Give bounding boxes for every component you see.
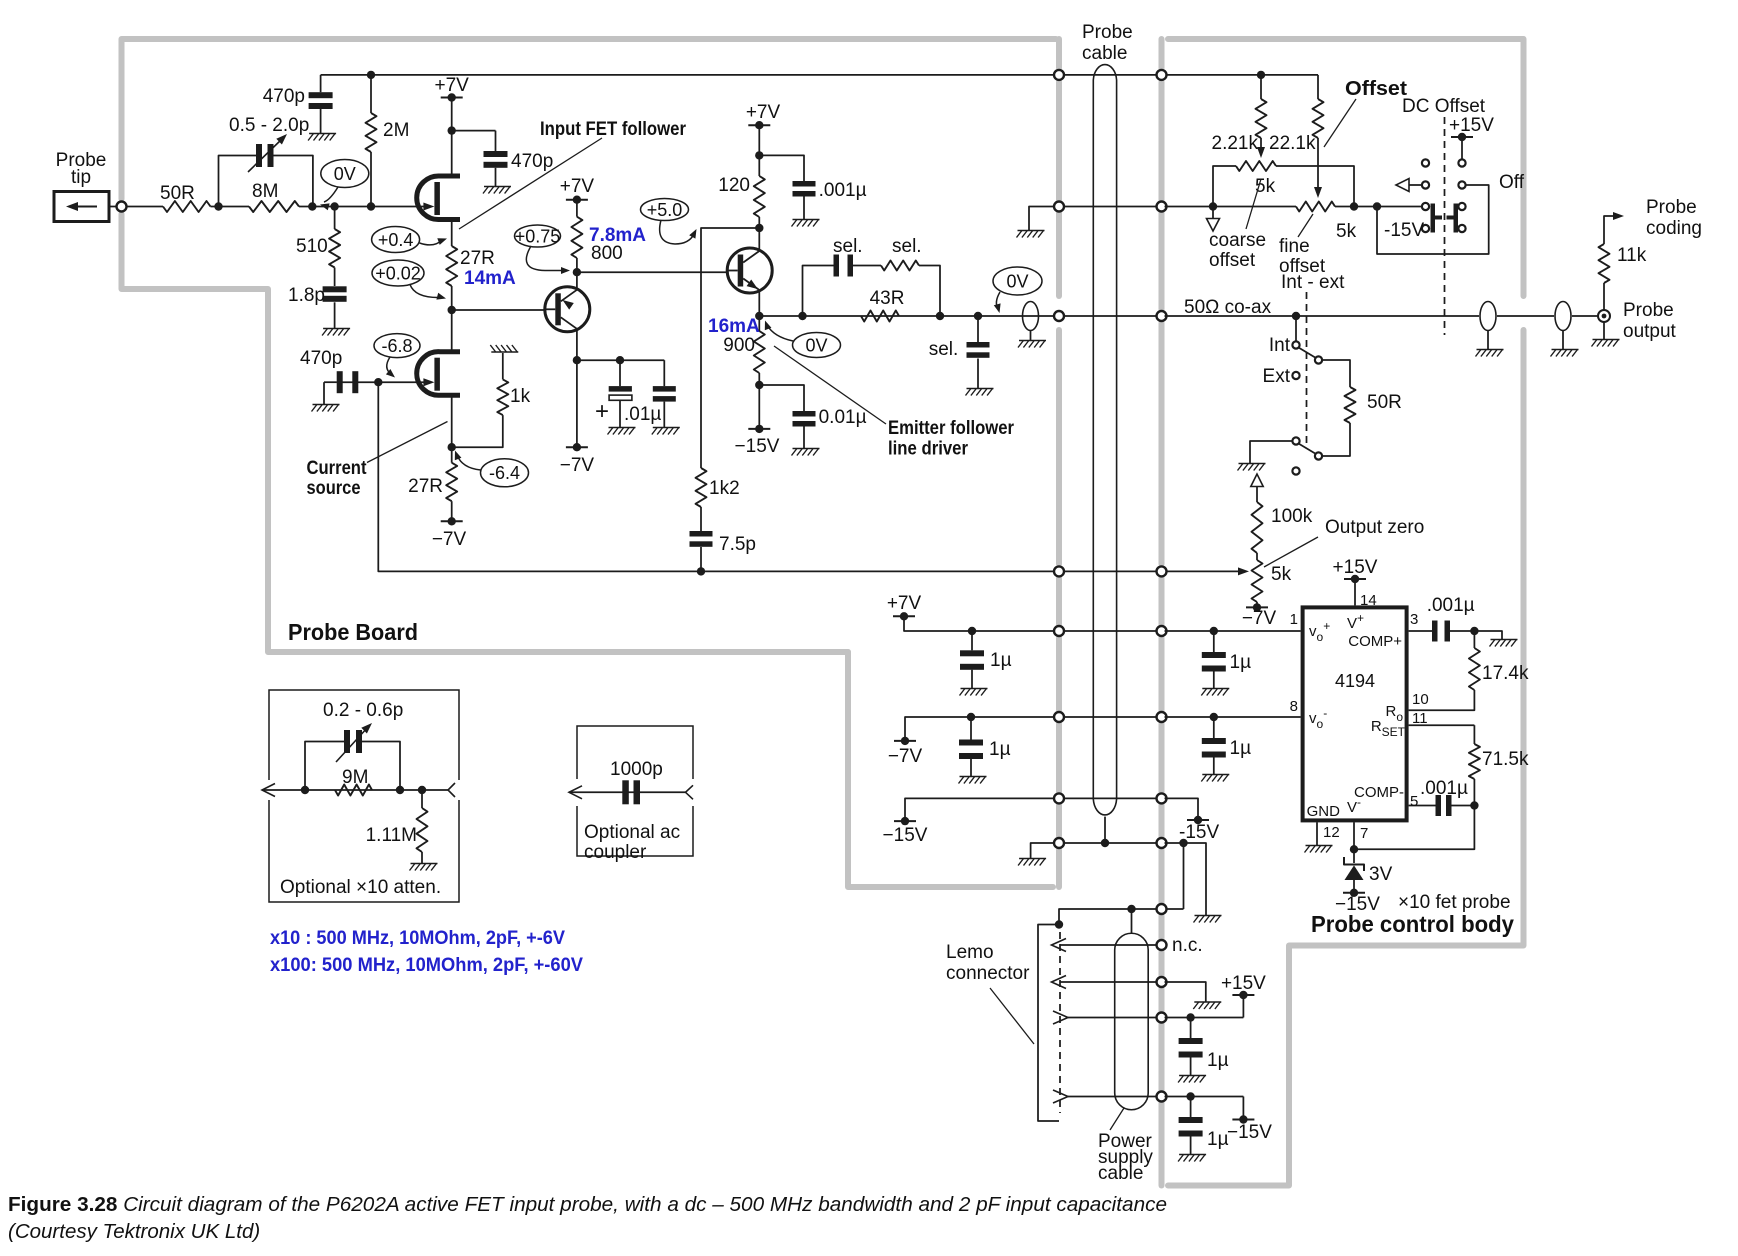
wire coupler	[569, 791, 686, 793]
wire 900 to -15V	[758, 373, 760, 429]
node 9M left	[301, 786, 309, 794]
wire trimmer branch attenuator	[305, 742, 344, 791]
ground below 1.8p	[323, 328, 350, 330]
svg-text:cable: cable	[1098, 1163, 1143, 1184]
svg-text:100k: 100k	[1271, 506, 1313, 527]
wire emitter line to border	[759, 315, 1056, 317]
supply -15V zener	[1343, 892, 1365, 894]
svg-text:Offset: Offset	[1345, 78, 1407, 100]
capacitor .001u	[793, 181, 816, 187]
svg-text:1µ: 1µ	[1230, 738, 1252, 759]
lemo pin +15V row	[1053, 1011, 1068, 1024]
svg-text:14: 14	[1360, 592, 1377, 609]
node power cable shield stem	[1127, 905, 1135, 913]
svg-text:8: 8	[1290, 698, 1298, 715]
capacitor 7.5p	[690, 531, 713, 537]
potentiometer coarse offset 5k	[1236, 161, 1276, 171]
wire +15V row to supply	[1165, 1017, 1244, 1019]
voltage ellipse +5.0	[641, 199, 689, 221]
node Q3 collector	[755, 224, 763, 232]
svg-text:.01µ: .01µ	[624, 404, 661, 425]
node electrolytic branch	[616, 356, 624, 364]
node off loop join	[1373, 202, 1381, 210]
wire probe tip to 50R	[109, 206, 163, 208]
power supply cable outline	[1115, 933, 1149, 1110]
svg-text:Probe: Probe	[1082, 22, 1133, 43]
wire attenuator main	[262, 789, 448, 791]
svg-text:.001µ: .001µ	[1427, 595, 1475, 616]
supply +7V row to control body	[893, 615, 915, 617]
svg-text:14mA: 14mA	[464, 268, 516, 289]
pushbutton bars	[1431, 204, 1436, 233]
svg-text:3V: 3V	[1369, 864, 1393, 885]
capacitor 0.01u	[793, 411, 816, 417]
callout line output zero	[1264, 537, 1318, 567]
ground below sel shunt	[967, 388, 994, 390]
open circle -15V control border	[1157, 793, 1167, 803]
node after 8M	[308, 202, 316, 210]
supply -15V row to control body	[905, 798, 1056, 821]
svg-text:n.c.: n.c.	[1172, 935, 1203, 956]
transistor Q1 input FET follower (JFET)	[417, 176, 460, 220]
probe cable shield stem to ground row	[1104, 817, 1106, 843]
node comp- cap	[1470, 801, 1478, 809]
callout line input FET follower	[459, 138, 602, 229]
wire Q2 collector to -7V	[576, 360, 578, 447]
node probe cable shield on ground row	[1101, 839, 1109, 847]
node 2M branch	[367, 202, 375, 210]
svg-text:0.2 - 0.6p: 0.2 - 0.6p	[323, 700, 403, 721]
optional x10 attenuator box	[269, 690, 459, 902]
svg-text:GND: GND	[1307, 803, 1341, 820]
node open circle rail at control body border	[1157, 70, 1167, 80]
node 1.11M	[418, 786, 426, 794]
svg-text:offset: offset	[1209, 250, 1256, 271]
svg-text:output: output	[1623, 321, 1677, 342]
resistor 11k probe coding	[1603, 283, 1605, 310]
svg-text:8M: 8M	[252, 181, 278, 202]
svg-text:1.8p: 1.8p	[288, 285, 325, 306]
resistor 800	[576, 200, 578, 217]
ground int-ext	[1239, 463, 1266, 465]
svg-text:Output zero: Output zero	[1325, 517, 1424, 538]
capacitor 0.2-0.6p variable	[344, 730, 350, 753]
svg-text:50R: 50R	[160, 183, 195, 204]
potentiometer fine offset 5k	[1296, 202, 1335, 212]
ground below 1u pin8	[1202, 774, 1229, 776]
wire 27R to node	[451, 286, 453, 310]
co-ax shield oval outer	[1555, 302, 1571, 331]
svg-text:50R: 50R	[1367, 392, 1402, 413]
svg-text:0V: 0V	[805, 335, 827, 355]
svg-text:1k2: 1k2	[709, 478, 740, 499]
svg-text:50Ω co-ax: 50Ω co-ax	[1184, 297, 1272, 318]
node 1u cap row7	[968, 627, 976, 635]
open circle +7V control border	[1157, 626, 1167, 636]
svg-text:1µ: 1µ	[1207, 1050, 1229, 1071]
open circle guard control border	[1157, 566, 1167, 576]
capacitor 1000p	[622, 780, 629, 804]
arrow up to output zero network	[1251, 474, 1263, 487]
svg-text:27R: 27R	[408, 476, 443, 497]
node ground row branch	[1179, 839, 1187, 847]
svg-text:12: 12	[1323, 824, 1340, 841]
wire to 50R	[1322, 360, 1350, 387]
resistor 71.5k	[1473, 725, 1475, 744]
svg-text:COMP+: COMP+	[1348, 633, 1402, 650]
node 9M right	[396, 786, 404, 794]
node FET drain 470p branch	[448, 126, 456, 134]
svg-text:DC Offset: DC Offset	[1402, 96, 1486, 117]
ground co-ax probe board side	[1019, 340, 1046, 342]
wire trimmer branch	[219, 156, 257, 207]
lemo connector dashed pin column	[1059, 932, 1061, 1113]
svg-text:Current: Current	[307, 458, 368, 479]
svg-text:-15V: -15V	[1384, 220, 1424, 241]
ground below 1u -15V	[1179, 1154, 1206, 1156]
capacitor 470p series at gate	[337, 371, 343, 393]
svg-text:Figure 3.28 Circuit diagram o: Figure 3.28 Circuit diagram of the P6202…	[8, 1193, 1167, 1216]
power supply cable shield stem	[1131, 909, 1133, 933]
resistor 2.21k	[1260, 75, 1262, 99]
svg-text:800: 800	[591, 243, 623, 264]
ground below .01u ceramic	[653, 427, 680, 429]
resistor 8M	[249, 201, 299, 212]
wire -15V row to supply	[1165, 1096, 1244, 1098]
ground below 1.11M	[421, 852, 423, 863]
svg-text:coupler: coupler	[584, 842, 647, 863]
capacitor sel. shunt	[977, 316, 979, 342]
svg-text:0V: 0V	[1006, 271, 1028, 291]
svg-text:Int - ext: Int - ext	[1281, 272, 1345, 293]
wire caps branch	[577, 359, 664, 361]
ground below 1u +15V	[1179, 1075, 1206, 1077]
svg-text:0.5 - 2.0p: 0.5 - 2.0p	[229, 115, 309, 136]
svg-text:0V: 0V	[334, 164, 356, 184]
svg-text:120: 120	[718, 175, 750, 196]
open circle y207 control border	[1157, 202, 1167, 212]
terminal arrow left attenuator	[262, 784, 275, 797]
svg-text:1µ: 1µ	[990, 650, 1012, 671]
switch contact Int	[1292, 341, 1299, 348]
svg-text:+0.02: +0.02	[375, 263, 421, 283]
node pin7	[1350, 845, 1358, 853]
resistor 900	[754, 331, 765, 373]
node Q2 emitter/800	[573, 268, 581, 276]
capacitor 470p top-left	[320, 75, 322, 92]
probe output connector	[1598, 310, 1610, 322]
pin 3 comp+ right	[1409, 630, 1432, 632]
capacitor .01u electrolytic	[619, 360, 621, 386]
svg-text:+7V: +7V	[560, 176, 595, 197]
co-ax shield oval probe board side	[1023, 302, 1039, 331]
svg-text:7.5p: 7.5p	[719, 534, 756, 555]
voltage ellipse -6.4	[481, 459, 529, 487]
open circle ground row control border	[1157, 838, 1167, 848]
wire comp- to pin7 node	[1354, 806, 1474, 850]
voltage ellipse 0V emitter	[793, 333, 841, 358]
wire lower contact to ground	[1250, 441, 1292, 463]
svg-text:11: 11	[1412, 710, 1428, 727]
open circle emitter line control border	[1157, 311, 1167, 321]
supply -15V below 900	[748, 428, 770, 430]
resistor 17.4k	[1473, 631, 1475, 648]
svg-text:43R: 43R	[870, 288, 905, 309]
wire 17.4k to pin10	[1409, 690, 1475, 710]
svg-text:-6.4: -6.4	[489, 463, 520, 483]
wire node down to FET2 drain	[451, 310, 453, 352]
svg-text:10: 10	[1412, 691, 1429, 708]
resistor 43R	[861, 311, 899, 322]
co-ax shield oval inner	[1480, 302, 1496, 331]
supply -7V below current source	[441, 520, 463, 522]
svg-text:.001µ: .001µ	[819, 180, 867, 201]
svg-text:1k: 1k	[510, 386, 531, 407]
open circle -7V probe border	[1054, 712, 1064, 722]
wire +7V to 120	[758, 125, 760, 176]
svg-text:+0.4: +0.4	[378, 230, 414, 250]
capacitor .001u comp+	[1432, 621, 1438, 642]
wire ground row into control body	[1165, 843, 1207, 915]
svg-text:Emitter follower: Emitter follower	[888, 418, 1015, 439]
callout line fine offset	[1298, 214, 1313, 237]
svg-text:×10 fet probe: ×10 fet probe	[1398, 892, 1511, 913]
node bracket top	[1055, 920, 1063, 928]
resistor 50R int-ext	[1345, 387, 1356, 423]
wire feedback to left and down to 1k2	[701, 228, 759, 468]
probe cable outline	[1093, 65, 1116, 799]
svg-text:x10 : 500 MHz, 10MOhm, 2pF, +: x10 : 500 MHz, 10MOhm, 2pF, +-6V	[270, 927, 565, 949]
svg-text:+5.0: +5.0	[647, 200, 683, 220]
wire Q3 emitter down	[758, 290, 760, 331]
dashed line DC offset switch	[1444, 117, 1446, 335]
capacitor .001u comp-	[1436, 795, 1442, 816]
wire Q2 collector down	[576, 329, 578, 360]
svg-text:+15V: +15V	[1333, 557, 1378, 578]
wire off loop	[1377, 185, 1489, 254]
svg-text:Probe Board: Probe Board	[288, 619, 418, 645]
voltage ellipse -6.8	[374, 334, 420, 358]
lemo connector bracket	[1038, 925, 1059, 1122]
Probe Board gray border outline	[122, 39, 1060, 887]
resistor 1k	[497, 379, 508, 415]
wire node to Q3 base	[577, 271, 727, 273]
triangle arrow to offset pots	[1396, 179, 1409, 192]
pin 11 rset	[1409, 724, 1475, 726]
node 510 branch	[330, 202, 338, 210]
callout line power supply cable	[1110, 1108, 1124, 1130]
open circle -7V control border	[1157, 712, 1167, 722]
diode zener 3V	[1353, 849, 1355, 863]
supply -7V output zero	[1246, 606, 1268, 608]
voltage ellipse +0.4	[372, 227, 420, 253]
node coarse left on main line	[1209, 202, 1217, 210]
node FET1 bias	[448, 306, 456, 314]
wire to 470p decoupling cap	[452, 130, 496, 132]
switch contacts DC offset	[1422, 159, 1429, 166]
wire fine offset to switch	[1335, 206, 1422, 208]
svg-text:-6.8: -6.8	[381, 336, 412, 356]
capacitor 1u pin8	[1213, 717, 1215, 738]
open circle emitter line probe border	[1054, 311, 1064, 321]
ground below 470p top-left	[309, 133, 336, 135]
svg-text:2M: 2M	[383, 120, 409, 141]
svg-text:−15V: −15V	[735, 436, 780, 457]
voltage ellipse 0V input	[321, 160, 369, 188]
svg-text:510: 510	[296, 236, 328, 257]
resistor 27R current source	[446, 463, 457, 502]
wire 50R to 8M	[211, 206, 250, 208]
node FET2 gate	[374, 378, 382, 386]
node .001u branch	[755, 151, 763, 159]
dashed line int-ext	[1306, 292, 1308, 446]
node 1u cap row -7V	[967, 713, 975, 721]
transistor Q3 emitter follower line driver	[727, 248, 772, 293]
wire 1k branch	[452, 415, 503, 447]
svg-text:Lemo: Lemo	[946, 942, 994, 963]
wire 5k pot to -7V	[1256, 602, 1258, 607]
svg-text:11k: 11k	[1617, 245, 1647, 266]
open circle y207 probe border	[1054, 202, 1064, 212]
ground co-ax inner	[1477, 349, 1504, 351]
svg-text:+7V: +7V	[746, 102, 781, 123]
svg-text:5k: 5k	[1271, 564, 1292, 585]
resistor 22.1k	[1317, 75, 1319, 99]
svg-text:Optional ×10 atten.: Optional ×10 atten.	[280, 877, 441, 898]
resistor 27R upper	[446, 246, 457, 286]
node sel cap stub	[974, 312, 982, 320]
capacitor .01u ceramic	[663, 360, 665, 386]
pin 5 comp- right	[1409, 805, 1436, 807]
ground below 0.01u	[793, 448, 820, 450]
voltage ellipse 0V co-ax	[993, 267, 1042, 295]
ground below 1u (+7V left)	[961, 688, 988, 690]
resistor 1k2	[696, 468, 707, 507]
svg-text:coding: coding	[1646, 218, 1702, 239]
svg-text:−7V: −7V	[432, 529, 467, 550]
svg-text:4194: 4194	[1335, 671, 1375, 691]
svg-text:coarse: coarse	[1209, 230, 1266, 251]
svg-text:tip: tip	[71, 167, 91, 188]
supply -15V lower in control body	[1232, 1119, 1254, 1121]
pin 12 gnd bottom	[1316, 822, 1318, 845]
node open circle rail at probe board border	[1054, 70, 1064, 80]
svg-text:Off: Off	[1499, 172, 1525, 193]
node coarse right join	[1350, 202, 1358, 210]
wire 50R bottom to blade	[1322, 423, 1350, 456]
svg-text:1000p: 1000p	[610, 759, 663, 780]
svg-text:17.4k: 17.4k	[1482, 663, 1529, 684]
switch contact lower	[1292, 437, 1299, 444]
op-amp U1 4194 regulator box	[1303, 607, 1407, 820]
pin 7 V- bottom	[1353, 822, 1355, 849]
capacitor 0.5-2.0p variable	[256, 144, 262, 167]
ground below .001u	[793, 219, 820, 221]
ground below 1u pin1	[1202, 688, 1229, 690]
wire 7.5p to guard wire	[700, 547, 702, 571]
svg-text:−7V: −7V	[1242, 608, 1277, 629]
supply +7V for 800	[566, 199, 588, 201]
voltage ellipse +0.02	[372, 260, 424, 286]
probe tip box	[54, 192, 109, 222]
ground left of 470p gate cap	[313, 404, 340, 406]
pin 8 vo- left	[1165, 716, 1301, 718]
node 2.21k top	[1257, 71, 1265, 79]
node comp+ cap	[1470, 627, 1478, 635]
wire Q2 emitter up to 800 node	[576, 272, 578, 290]
svg-text:3: 3	[1410, 611, 1418, 628]
capacitor 1u pin1	[1213, 631, 1215, 652]
ground row982 control side	[1194, 1001, 1221, 1003]
open circle +7V probe border	[1054, 626, 1064, 636]
svg-text:−7V: −7V	[888, 746, 923, 767]
svg-text:9M: 9M	[342, 767, 368, 788]
capacitor 1u (-7V left)	[970, 717, 972, 740]
wire to Int contact	[1295, 316, 1297, 341]
switch contact blade lower	[1315, 452, 1322, 459]
supply -7V below Q2	[566, 446, 588, 448]
resistor 2M	[370, 75, 372, 113]
svg-text:−7V: −7V	[560, 455, 595, 476]
callout line current source	[367, 422, 448, 463]
svg-text:sel.: sel.	[929, 339, 959, 360]
resistor sel.	[881, 261, 919, 271]
transistor Q4 current source FET	[417, 352, 460, 396]
node 2M top on rail	[367, 71, 375, 79]
svg-text:sel.: sel.	[892, 236, 922, 257]
wire gate cap to FET2	[337, 381, 425, 383]
callout line emitter follower	[774, 346, 886, 424]
svg-text:16mA: 16mA	[708, 316, 760, 337]
wire FET2 source down	[451, 395, 453, 463]
transistor Q2 PNP level shifter	[545, 287, 590, 332]
resistor 50R	[163, 201, 211, 212]
node sel branch right	[936, 312, 944, 320]
voltage ellipse +0.75	[515, 225, 561, 247]
svg-text:line driver: line driver	[888, 439, 969, 460]
switch contact blade upper	[1315, 356, 1322, 363]
pin 14 V+ top	[1344, 578, 1366, 580]
lemo pin ground row 982	[1052, 976, 1067, 989]
svg-text:470p: 470p	[263, 86, 305, 107]
ground stub comp+	[1474, 631, 1502, 639]
svg-text:+7V: +7V	[887, 593, 922, 614]
svg-text:−15V: −15V	[883, 825, 928, 846]
node Q2 collector caps branch	[573, 356, 581, 364]
svg-text:cable: cable	[1082, 43, 1127, 64]
arrow down off-page below coarse node	[1212, 207, 1214, 219]
open circle shield row control border	[1157, 904, 1167, 914]
pin 1 vo+ left	[1165, 630, 1301, 632]
svg-text:Ext: Ext	[1263, 366, 1291, 387]
supply +15V DC offset	[1451, 136, 1473, 138]
ground probe output	[1603, 322, 1605, 339]
svg-text:Probe: Probe	[1646, 197, 1697, 218]
optional ac coupler box	[577, 726, 693, 856]
svg-text:5k: 5k	[1336, 221, 1357, 242]
switch contact unused	[1292, 467, 1299, 474]
svg-text:source: source	[307, 478, 361, 499]
terminal arrow left coupler	[569, 786, 582, 799]
wire -15V into control body	[1165, 798, 1199, 820]
svg-text:5: 5	[1410, 793, 1418, 810]
svg-text:470p: 470p	[300, 348, 342, 369]
terminal chevron right attenuator	[448, 783, 455, 797]
svg-text:+7V: +7V	[435, 75, 470, 96]
svg-text:.001µ: .001µ	[1420, 778, 1468, 799]
svg-text:−15V: −15V	[1227, 1122, 1272, 1143]
wire 27R to -7V	[451, 501, 453, 521]
